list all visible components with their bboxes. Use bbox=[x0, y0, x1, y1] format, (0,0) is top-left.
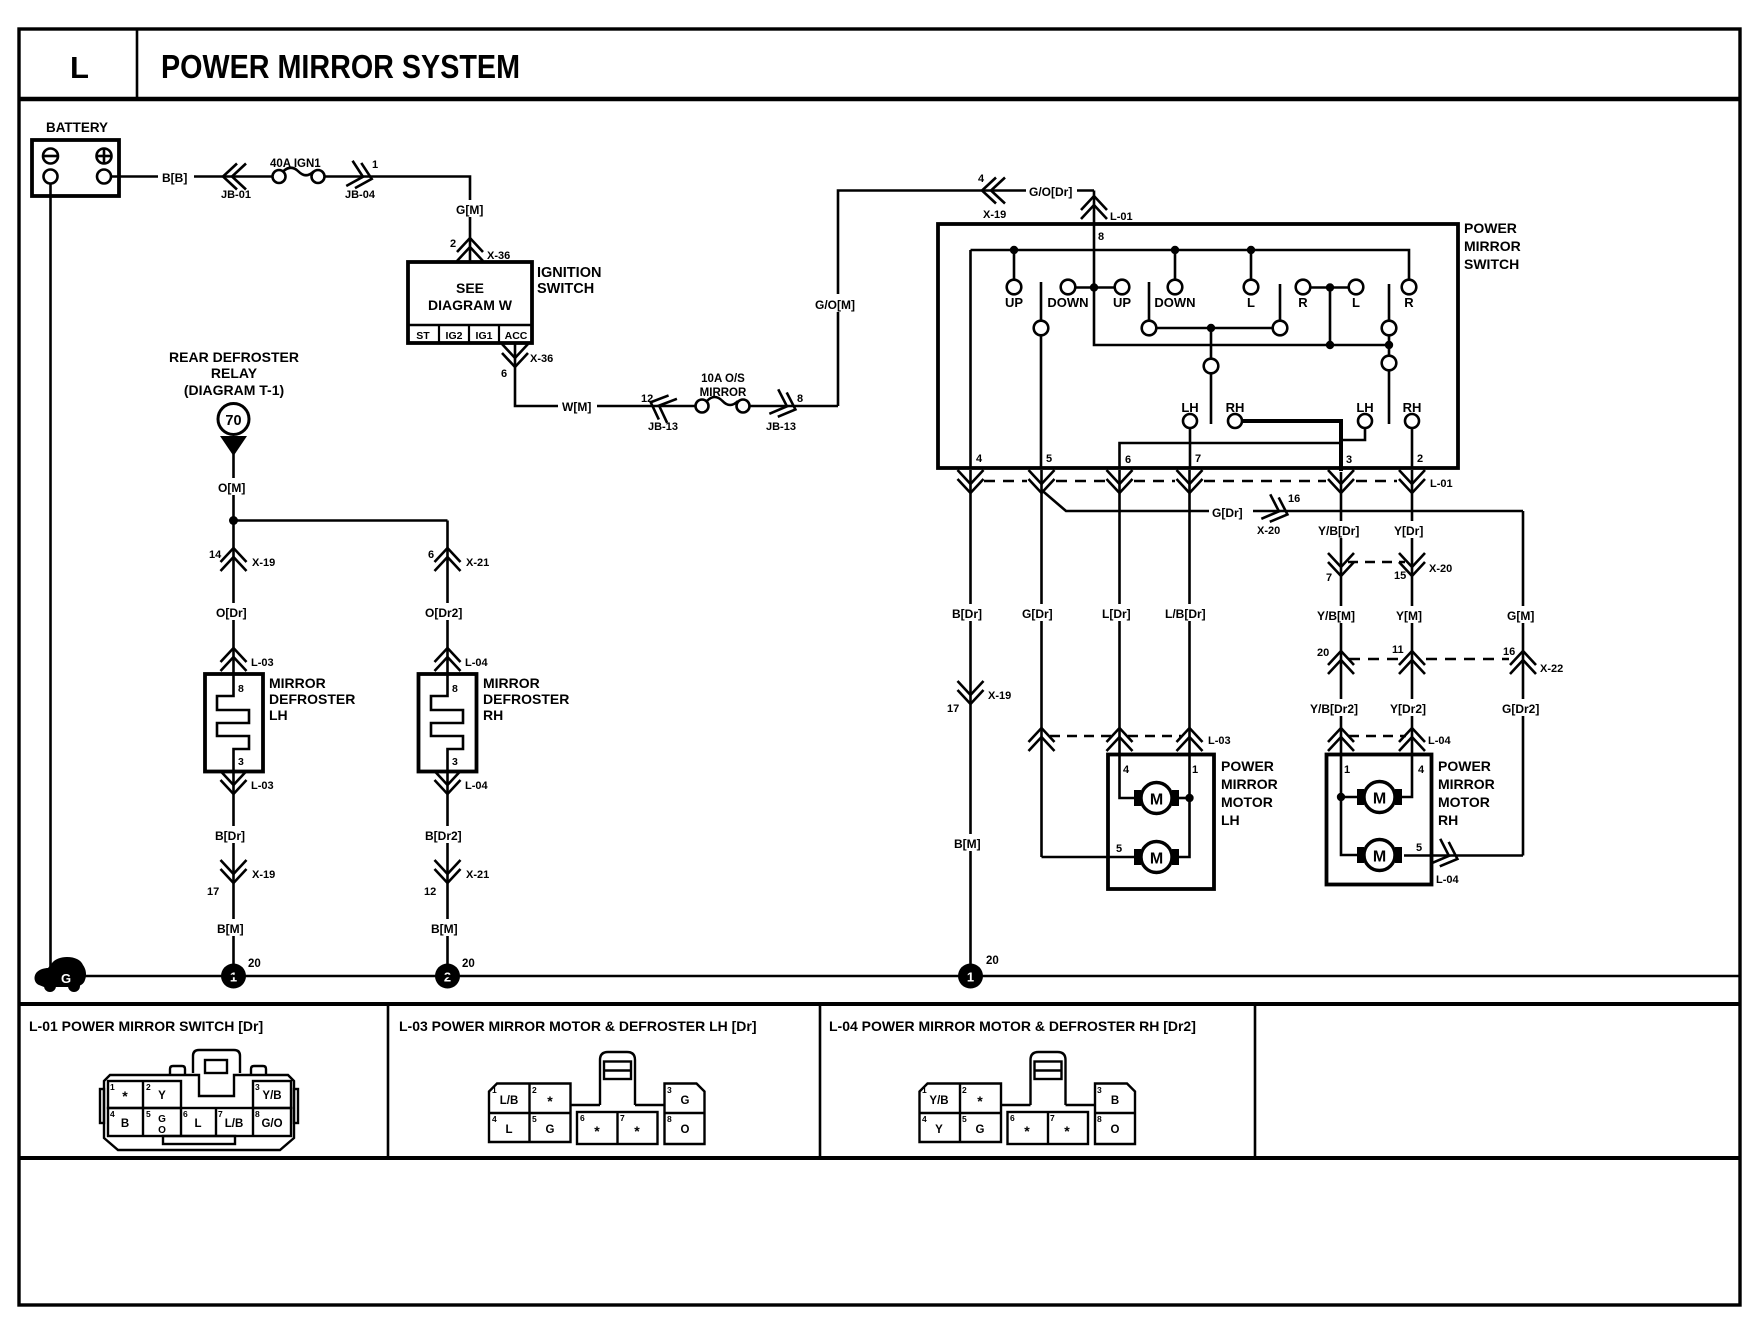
motor LH upper link bbox=[1179, 797, 1190, 800]
svg-text:MIRROR: MIRROR bbox=[1464, 238, 1521, 254]
svg-text:4: 4 bbox=[976, 453, 983, 465]
select pole 1 contact bbox=[1204, 359, 1219, 374]
wire label B[M] switch bbox=[950, 834, 991, 851]
svg-text:6: 6 bbox=[580, 1113, 585, 1123]
ground splice 2 bbox=[435, 964, 460, 989]
connector L-03 cavity labels bbox=[492, 1085, 672, 1124]
pole link wire bbox=[1157, 327, 1273, 330]
svg-text:L: L bbox=[70, 50, 89, 85]
wire G/O[M] riser bbox=[838, 191, 1094, 407]
junction dot bus L1 bbox=[1247, 246, 1255, 254]
svg-text:O: O bbox=[158, 1125, 166, 1136]
svg-text:R: R bbox=[1404, 295, 1414, 310]
svg-text:Y[Dr]: Y[Dr] bbox=[1394, 524, 1423, 538]
svg-text:8: 8 bbox=[1098, 231, 1104, 243]
junction dot motor LH bbox=[1185, 794, 1193, 802]
svg-text:M: M bbox=[1373, 849, 1386, 866]
legend divider 2 bbox=[819, 1004, 822, 1158]
mirror defroster RH box bbox=[419, 674, 477, 772]
motor RH pin4 wire bbox=[1402, 755, 1412, 798]
connector L-04 defroster RH bottom bbox=[435, 771, 461, 794]
svg-text:12: 12 bbox=[641, 393, 653, 405]
connector L-03 motor pin 1 bbox=[1177, 728, 1203, 751]
svg-text:15: 15 bbox=[1394, 570, 1406, 582]
svg-text:*: * bbox=[594, 1123, 600, 1139]
svg-text:MIRROR: MIRROR bbox=[269, 675, 326, 691]
select pole 1 arm bbox=[1210, 374, 1213, 425]
svg-text:5: 5 bbox=[1416, 842, 1422, 854]
connector X-20 pin 15 bbox=[1399, 553, 1425, 576]
connector X-20 pin 7 bbox=[1328, 553, 1354, 576]
connector X-22 pin 20 bbox=[1328, 651, 1354, 674]
svg-text:1: 1 bbox=[967, 970, 974, 985]
svg-text:O[Dr]: O[Dr] bbox=[216, 606, 247, 620]
connector JB-04 bbox=[346, 161, 375, 192]
svg-text:L[Dr]: L[Dr] bbox=[1102, 607, 1131, 621]
connector X-20 dashed link bbox=[1348, 561, 1405, 563]
contact L1 stub bbox=[1250, 250, 1253, 280]
svg-text:20: 20 bbox=[248, 958, 261, 970]
svg-text:20: 20 bbox=[462, 958, 475, 970]
wire label Y[M] bbox=[1392, 606, 1432, 623]
junction node defroster feed bbox=[229, 516, 238, 525]
wire junction to RH branch bbox=[234, 519, 448, 522]
svg-text:*: * bbox=[1024, 1123, 1030, 1139]
svg-text:L-01: L-01 bbox=[1110, 211, 1133, 223]
connector L-01 pin 7 bbox=[1177, 470, 1203, 493]
svg-text:Y/B: Y/B bbox=[262, 1090, 281, 1102]
svg-text:MIRROR: MIRROR bbox=[700, 387, 747, 399]
svg-text:B[Dr2]: B[Dr2] bbox=[425, 829, 462, 843]
wire label L/B[Dr] bbox=[1162, 604, 1217, 621]
svg-text:7: 7 bbox=[1326, 572, 1332, 584]
contact L1 bbox=[1244, 280, 1259, 295]
wire label Y/B[Dr2] bbox=[1307, 699, 1369, 716]
motor LH upper motor M bbox=[1134, 790, 1141, 806]
svg-text:RH: RH bbox=[1438, 812, 1458, 828]
legend strip bottom border bbox=[19, 1156, 1740, 1160]
svg-text:8: 8 bbox=[1097, 1114, 1102, 1124]
svg-text:L: L bbox=[505, 1124, 512, 1136]
relay node 70 bbox=[218, 404, 249, 435]
wire label B[B] bbox=[158, 167, 194, 185]
connector L-04 defroster RH top bbox=[435, 648, 461, 671]
svg-text:8: 8 bbox=[238, 683, 244, 695]
connector L-04 motor pin 1 bbox=[1328, 728, 1354, 751]
wire Y pin2 down bbox=[1411, 470, 1414, 754]
svg-text:B[M]: B[M] bbox=[217, 922, 244, 936]
motor RH lower motor M bbox=[1357, 847, 1364, 863]
wire defroster LH down bbox=[232, 772, 235, 977]
wire label B[Dr] pin4 bbox=[948, 604, 993, 621]
connector L-04 dashed link bbox=[1349, 735, 1406, 737]
connector L-01 cavity labels bbox=[110, 1082, 260, 1119]
svg-text:Y/B: Y/B bbox=[929, 1095, 948, 1107]
svg-text:1: 1 bbox=[922, 1085, 927, 1095]
svg-text:G: G bbox=[158, 1114, 166, 1125]
svg-text:UP: UP bbox=[1005, 295, 1023, 310]
svg-text:8: 8 bbox=[255, 1109, 260, 1119]
pole S4 arm bbox=[1388, 284, 1391, 321]
connector L-01 pin 6 bbox=[1107, 470, 1133, 493]
wire relay to junction bbox=[232, 454, 235, 521]
svg-text:IG1: IG1 bbox=[476, 330, 493, 342]
svg-text:O[Dr2]: O[Dr2] bbox=[425, 606, 462, 620]
svg-text:L-04: L-04 bbox=[1436, 874, 1460, 886]
contact L2 bbox=[1349, 280, 1364, 295]
wire into switch pin 8 bbox=[1093, 191, 1096, 225]
connector L-01 pin 3 bbox=[1328, 470, 1354, 493]
svg-text:L-03: L-03 bbox=[1208, 735, 1231, 747]
svg-text:6: 6 bbox=[501, 368, 507, 380]
svg-text:Y: Y bbox=[158, 1090, 166, 1102]
svg-text:11: 11 bbox=[1392, 644, 1404, 656]
svg-text:Y[M]: Y[M] bbox=[1396, 609, 1422, 623]
svg-text:IG2: IG2 bbox=[446, 330, 463, 342]
svg-text:POWER: POWER bbox=[1464, 220, 1517, 236]
wire label B[Dr] bbox=[211, 826, 256, 843]
svg-text:JB-13: JB-13 bbox=[766, 421, 796, 433]
svg-text:L: L bbox=[1247, 295, 1255, 310]
connector X-22 dashed link bbox=[1349, 658, 1398, 660]
svg-text:L/B[Dr]: L/B[Dr] bbox=[1165, 607, 1206, 621]
contact R1 bbox=[1296, 280, 1311, 295]
svg-text:B: B bbox=[1111, 1095, 1119, 1107]
wire defroster RH down bbox=[446, 772, 449, 977]
junction dot motor RH bbox=[1337, 793, 1345, 801]
connector X-22 pin 16 bbox=[1510, 651, 1536, 674]
connector L-03 housing bbox=[489, 1052, 705, 1144]
wire ignition ACC to mirror fuse bbox=[515, 343, 695, 406]
pole S4 link bbox=[1388, 336, 1391, 356]
svg-text:LH: LH bbox=[269, 707, 288, 723]
connector L-03 defroster LH top bbox=[221, 648, 247, 671]
svg-text:L: L bbox=[194, 1118, 201, 1130]
svg-text:POWER MIRROR SYSTEM: POWER MIRROR SYSTEM bbox=[161, 48, 520, 85]
svg-text:MOTOR: MOTOR bbox=[1438, 794, 1490, 810]
ignition switch box bbox=[408, 262, 532, 343]
svg-text:4: 4 bbox=[1123, 764, 1130, 776]
svg-text:G/O[Dr]: G/O[Dr] bbox=[1029, 185, 1072, 199]
connector L-04 housing bbox=[920, 1052, 1136, 1144]
svg-text:Y/B[Dr2]: Y/B[Dr2] bbox=[1310, 702, 1358, 716]
switch pin 7 stub bbox=[1189, 428, 1192, 468]
svg-text:POWER: POWER bbox=[1438, 758, 1491, 774]
contact LH2 stub to pin 3 bbox=[1343, 428, 1365, 440]
svg-text:7: 7 bbox=[620, 1113, 625, 1123]
svg-text:L-03: L-03 bbox=[251, 780, 274, 792]
svg-text:DOWN: DOWN bbox=[1154, 295, 1195, 310]
svg-text:Y/B[Dr]: Y/B[Dr] bbox=[1318, 524, 1359, 538]
svg-text:5: 5 bbox=[146, 1109, 151, 1119]
pole S3 contact bbox=[1273, 321, 1288, 336]
svg-text:UP: UP bbox=[1113, 295, 1131, 310]
wire B[Dr] pin4 down bbox=[969, 470, 972, 976]
svg-text:X-22: X-22 bbox=[1540, 663, 1563, 675]
contact DOWN2 stub bbox=[1174, 250, 1177, 280]
connector X-36 pin 6 bbox=[502, 344, 528, 367]
svg-text:8: 8 bbox=[667, 1114, 672, 1124]
svg-text:MOTOR: MOTOR bbox=[1221, 794, 1273, 810]
contact UP1 bbox=[1007, 280, 1022, 295]
svg-text:4: 4 bbox=[922, 1114, 927, 1124]
pole S1 contact bbox=[1034, 321, 1049, 336]
svg-text:ST: ST bbox=[416, 330, 430, 342]
ground symbol G body bbox=[35, 957, 87, 987]
wire junction down LH branch bbox=[232, 521, 235, 675]
connector L-03 motor pin 5 bbox=[1029, 728, 1055, 751]
connector X-21 pin 6 bbox=[435, 548, 461, 571]
connector L-01 pin 2 bbox=[1399, 470, 1425, 493]
contact DOWN2 bbox=[1168, 280, 1183, 295]
svg-text:8: 8 bbox=[797, 393, 803, 405]
wire G[M] riser right bbox=[1522, 511, 1525, 856]
contact DOWN1 bbox=[1061, 280, 1076, 295]
svg-text:W[M]: W[M] bbox=[562, 400, 591, 414]
svg-text:X-19: X-19 bbox=[983, 209, 1006, 221]
wire label O[M] bbox=[214, 478, 253, 495]
svg-text:G: G bbox=[976, 1124, 985, 1136]
svg-text:3: 3 bbox=[667, 1085, 672, 1095]
wire label O[Dr] bbox=[212, 603, 255, 620]
svg-text:(DIAGRAM T-1): (DIAGRAM T-1) bbox=[184, 382, 284, 398]
svg-text:SWITCH: SWITCH bbox=[1464, 256, 1519, 272]
svg-text:O[M]: O[M] bbox=[218, 481, 245, 495]
motor LH lower motor M bbox=[1134, 849, 1141, 865]
connector L-01 housing bbox=[100, 1050, 298, 1150]
wire Y/B pin3 down bbox=[1340, 472, 1343, 754]
defroster RH heater element bbox=[431, 674, 463, 772]
wire label W[M] bbox=[558, 397, 597, 414]
connector L-01 pin 5 bbox=[1029, 470, 1055, 493]
wire label G/O[M] bbox=[812, 294, 864, 312]
svg-text:5: 5 bbox=[1046, 453, 1052, 465]
svg-text:RH: RH bbox=[483, 707, 503, 723]
svg-text:REAR DEFROSTER: REAR DEFROSTER bbox=[169, 349, 299, 365]
motor RH upper left link bbox=[1341, 796, 1359, 799]
wire G[Dr] branch diagonal bbox=[1042, 490, 1524, 511]
mirror defroster LH box bbox=[205, 674, 263, 772]
contact R1 to L2 link bbox=[1311, 286, 1349, 289]
wire mirror fuse to riser bbox=[750, 405, 838, 408]
title bar cell divider bbox=[136, 29, 139, 99]
svg-text:*: * bbox=[977, 1093, 983, 1109]
svg-text:JB-04: JB-04 bbox=[345, 189, 376, 201]
svg-text:17: 17 bbox=[207, 886, 219, 898]
wire label B[Dr2] bbox=[421, 826, 474, 843]
svg-text:L-01 POWER MIRROR SWITCH [Dr]: L-01 POWER MIRROR SWITCH [Dr] bbox=[29, 1018, 263, 1034]
svg-text:LH: LH bbox=[1221, 812, 1240, 828]
svg-text:L-04: L-04 bbox=[465, 657, 489, 669]
svg-text:L-03: L-03 bbox=[251, 657, 274, 669]
svg-text:IGNITION: IGNITION bbox=[537, 265, 601, 281]
svg-text:1: 1 bbox=[1192, 764, 1198, 776]
wire label G[M] right bbox=[1503, 606, 1543, 623]
svg-text:POWER: POWER bbox=[1221, 758, 1274, 774]
title bar separator bbox=[19, 97, 1740, 102]
wire label L[Dr] pin6 bbox=[1118, 470, 1121, 754]
connector X-19 pin 17 bbox=[221, 860, 247, 883]
svg-text:2: 2 bbox=[1417, 453, 1423, 465]
svg-text:X-21: X-21 bbox=[466, 557, 489, 569]
svg-text:4: 4 bbox=[1418, 764, 1425, 776]
svg-text:G: G bbox=[61, 971, 71, 986]
connector X-21 pin 12 bbox=[435, 860, 461, 883]
svg-text:L: L bbox=[1352, 295, 1360, 310]
pole S2 arm bbox=[1148, 282, 1151, 321]
svg-text:3: 3 bbox=[255, 1082, 260, 1092]
svg-text:5: 5 bbox=[1116, 843, 1122, 855]
svg-text:Y[Dr2]: Y[Dr2] bbox=[1390, 702, 1426, 716]
svg-text:*: * bbox=[634, 1123, 640, 1139]
connector L-04 cavity labels bbox=[922, 1085, 1102, 1124]
svg-text:ACC: ACC bbox=[505, 330, 528, 342]
svg-text:JB-13: JB-13 bbox=[648, 421, 678, 433]
junction dot S4 bus bbox=[1385, 341, 1393, 349]
contact UP2 bbox=[1115, 280, 1130, 295]
ground bus wire bbox=[62, 975, 1740, 978]
svg-text:M: M bbox=[1150, 851, 1163, 868]
svg-text:MIRROR: MIRROR bbox=[1438, 776, 1495, 792]
svg-text:7: 7 bbox=[218, 1109, 223, 1119]
svg-text:4: 4 bbox=[110, 1109, 115, 1119]
motor LH pin5 wire bbox=[1042, 856, 1137, 859]
svg-text:DIAGRAM W: DIAGRAM W bbox=[428, 297, 513, 313]
svg-text:10A O/S: 10A O/S bbox=[701, 373, 745, 385]
junction dot bus DOWN2 bbox=[1171, 246, 1179, 254]
svg-text:X-19: X-19 bbox=[252, 557, 275, 569]
battery negative post bbox=[44, 170, 58, 184]
power mirror switch box bbox=[938, 224, 1458, 468]
defroster LH heater element bbox=[217, 674, 249, 772]
svg-text:7: 7 bbox=[1195, 453, 1201, 465]
svg-text:20: 20 bbox=[1317, 647, 1329, 659]
motor RH pin1 wire bbox=[1341, 755, 1359, 856]
wire fuse to ignition switch bbox=[324, 177, 470, 263]
connector L-01 pin 4 bbox=[958, 470, 984, 493]
select pole 2 contact bbox=[1382, 356, 1397, 371]
legend divider 1 bbox=[387, 1004, 390, 1158]
svg-text:SWITCH: SWITCH bbox=[537, 281, 594, 297]
svg-text:X-20: X-20 bbox=[1257, 525, 1280, 537]
wire label G[Dr] branch bbox=[1209, 503, 1253, 520]
junction dot R1L2 bbox=[1326, 283, 1334, 291]
switch top bus bbox=[971, 250, 1410, 280]
svg-text:7: 7 bbox=[1050, 1113, 1055, 1123]
connector X-22 pin 11 bbox=[1399, 651, 1425, 674]
svg-text:MIRROR: MIRROR bbox=[483, 675, 540, 691]
svg-text:3: 3 bbox=[452, 756, 458, 768]
svg-text:RELAY: RELAY bbox=[211, 365, 258, 381]
connector L-04 motor pin 4 bbox=[1399, 728, 1425, 751]
legend divider 3 bbox=[1254, 1004, 1257, 1158]
svg-text:R: R bbox=[1298, 295, 1308, 310]
wire defroster RH branch down bbox=[446, 521, 449, 675]
connector L-03 motor pin 4 bbox=[1107, 728, 1133, 751]
svg-text:G[Dr]: G[Dr] bbox=[1212, 506, 1243, 520]
svg-text:5: 5 bbox=[962, 1114, 967, 1124]
battery positive post bbox=[97, 170, 111, 184]
svg-text:M: M bbox=[1150, 792, 1163, 809]
svg-text:O: O bbox=[1111, 1124, 1120, 1136]
svg-text:MIRROR: MIRROR bbox=[1221, 776, 1278, 792]
wire battery negative to ground bbox=[49, 184, 52, 972]
pole S3 arm bbox=[1279, 284, 1282, 321]
wire label G[Dr] pin5 bbox=[1019, 604, 1063, 621]
pole S2 contact bbox=[1142, 321, 1157, 336]
svg-text:O: O bbox=[681, 1124, 690, 1136]
svg-text:L-04: L-04 bbox=[465, 780, 489, 792]
svg-text:16: 16 bbox=[1288, 493, 1300, 505]
wire label B[M] left bbox=[213, 919, 254, 936]
wire L/B[Dr] pin7 down bbox=[1188, 470, 1191, 754]
svg-text:B[M]: B[M] bbox=[954, 837, 981, 851]
svg-text:1: 1 bbox=[372, 159, 378, 171]
svg-text:*: * bbox=[547, 1093, 553, 1109]
svg-text:*: * bbox=[1064, 1123, 1070, 1139]
connector X-19 pin 14 bbox=[221, 548, 247, 571]
svg-text:B: B bbox=[121, 1118, 129, 1130]
svg-text:17: 17 bbox=[947, 703, 959, 715]
svg-text:12: 12 bbox=[424, 886, 436, 898]
svg-text:L-04: L-04 bbox=[1428, 735, 1452, 747]
connector JB-13 pin 8 bbox=[769, 389, 800, 421]
svg-text:6: 6 bbox=[1125, 454, 1131, 466]
svg-text:16: 16 bbox=[1503, 646, 1515, 658]
svg-text:M: M bbox=[1373, 791, 1386, 808]
svg-text:70: 70 bbox=[225, 413, 241, 429]
svg-text:G[M]: G[M] bbox=[1507, 609, 1534, 623]
wire label Y[Dr2] bbox=[1386, 699, 1437, 716]
connector X-19 pin 4 bbox=[982, 178, 1005, 204]
svg-text:B[Dr]: B[Dr] bbox=[215, 829, 245, 843]
svg-text:6: 6 bbox=[1010, 1113, 1015, 1123]
link drop to second bus bbox=[1329, 288, 1332, 346]
wire label Y[Dr] bbox=[1391, 521, 1435, 538]
svg-text:Y: Y bbox=[935, 1124, 943, 1136]
wire label G[Dr2] bbox=[1498, 699, 1549, 716]
connector L-01 row dashed link bbox=[984, 480, 1027, 482]
motor LH pin4 wire bbox=[1120, 755, 1137, 799]
legend strip top border bbox=[19, 1002, 1740, 1006]
switch pin 3 wire thick bbox=[1242, 421, 1341, 471]
svg-text:L-01: L-01 bbox=[1430, 478, 1453, 490]
svg-text:1: 1 bbox=[1344, 764, 1350, 776]
svg-text:1: 1 bbox=[492, 1085, 497, 1095]
wire label G[M] bbox=[452, 200, 489, 217]
junction dot pole link bbox=[1207, 324, 1215, 332]
svg-text:DEFROSTER: DEFROSTER bbox=[269, 691, 355, 707]
wire battery positive to fuse bbox=[111, 175, 272, 178]
wire label G/O[Dr] bbox=[1026, 182, 1077, 199]
svg-text:G[Dr]: G[Dr] bbox=[1022, 607, 1053, 621]
select pole 2 arm bbox=[1388, 371, 1391, 425]
svg-text:X-19: X-19 bbox=[252, 869, 275, 881]
connector JB-13 pin 12 bbox=[646, 390, 677, 423]
svg-text:3: 3 bbox=[238, 756, 244, 768]
svg-text:DOWN: DOWN bbox=[1047, 295, 1088, 310]
junction dot second bus bbox=[1326, 341, 1334, 349]
svg-text:G: G bbox=[546, 1124, 555, 1136]
connector X-19 pin 17 switch bbox=[958, 681, 984, 704]
wire label Y/B[M] bbox=[1315, 606, 1367, 623]
svg-text:20: 20 bbox=[986, 955, 999, 967]
svg-text:8: 8 bbox=[452, 683, 458, 695]
svg-text:L/B: L/B bbox=[225, 1118, 244, 1130]
svg-text:B[Dr]: B[Dr] bbox=[952, 607, 982, 621]
pole S1 arm bbox=[1040, 282, 1043, 321]
connector X-20 pin 16 bbox=[1261, 494, 1292, 526]
